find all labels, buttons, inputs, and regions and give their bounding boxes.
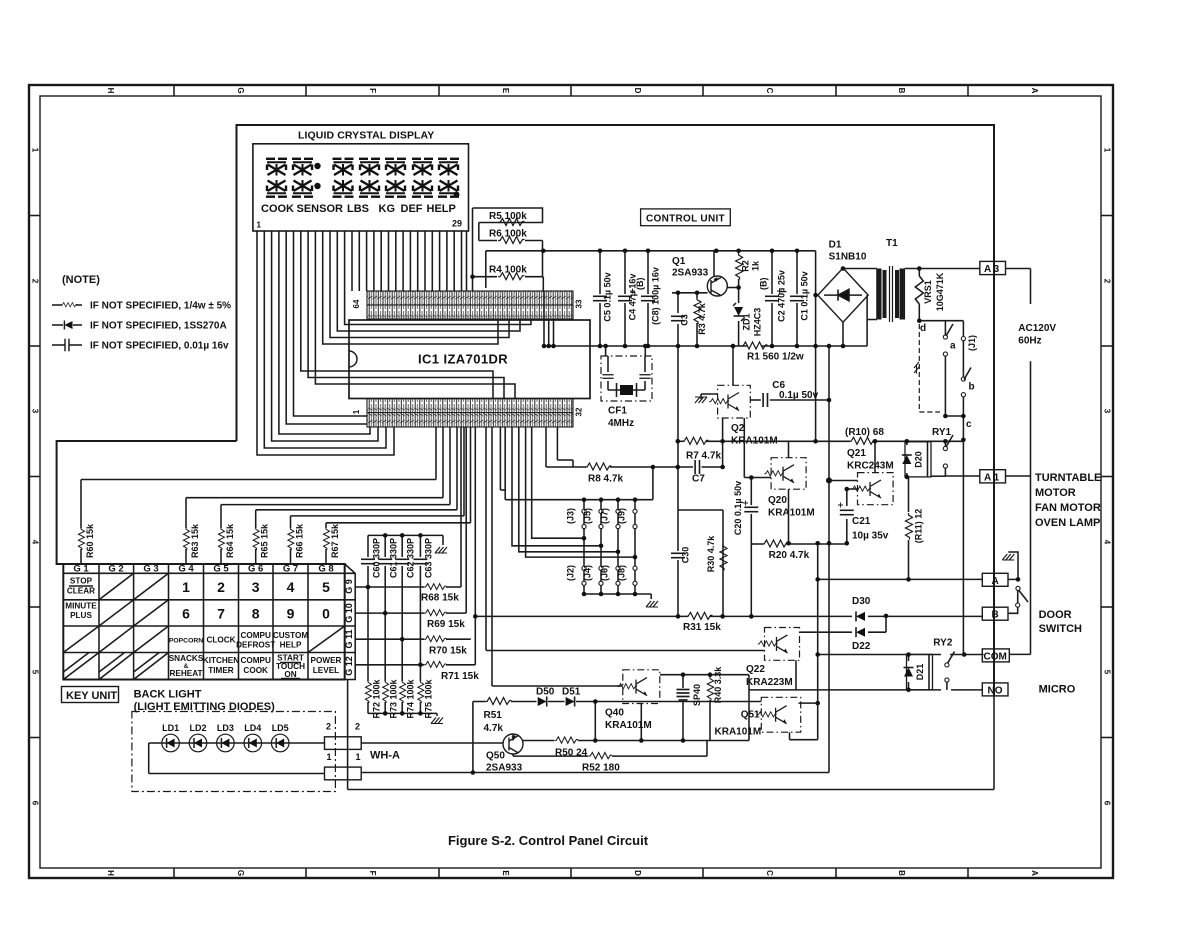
svg-text:1: 1: [356, 752, 361, 762]
svg-text:G: G: [236, 87, 245, 93]
svg-text:C20 0.1µ 50v: C20 0.1µ 50v: [733, 481, 743, 535]
svg-text:G 9: G 9: [344, 579, 354, 594]
svg-text:Q21: Q21: [847, 448, 866, 459]
svg-text:LD4: LD4: [244, 723, 261, 733]
svg-text:Q40: Q40: [605, 708, 624, 719]
svg-text:2: 2: [326, 722, 331, 732]
svg-text:1: 1: [30, 148, 39, 153]
svg-text:1: 1: [182, 579, 190, 595]
svg-text:A: A: [1030, 870, 1039, 876]
svg-text:IF NOT SPECIFIED, 0.01µ 16v: IF NOT SPECIFIED, 0.01µ 16v: [90, 341, 229, 352]
svg-text:LD5: LD5: [272, 723, 289, 733]
svg-text:HZ4C3: HZ4C3: [753, 308, 763, 337]
svg-text:R51: R51: [484, 710, 503, 721]
svg-text:R66 15k: R66 15k: [295, 523, 305, 558]
svg-text:(C8) 100µ 16v: (C8) 100µ 16v: [651, 267, 661, 325]
svg-text:C63 330P: C63 330P: [424, 538, 434, 578]
svg-text:R68 15k: R68 15k: [421, 593, 459, 604]
svg-text:VRS1: VRS1: [923, 280, 933, 304]
svg-text:D: D: [633, 870, 642, 876]
svg-text:ON: ON: [284, 670, 296, 679]
svg-text:S1NB10: S1NB10: [829, 252, 867, 263]
svg-text:B: B: [897, 870, 906, 876]
svg-text:G 2: G 2: [108, 564, 123, 575]
svg-text:T1: T1: [886, 238, 898, 249]
svg-text:R52 180: R52 180: [582, 763, 620, 774]
svg-text:CLEAR: CLEAR: [67, 587, 95, 596]
svg-text:9: 9: [287, 606, 295, 622]
svg-text:KRA223M: KRA223M: [746, 677, 793, 688]
svg-text:2: 2: [30, 279, 39, 284]
svg-text:C5 0.1µ 50v: C5 0.1µ 50v: [603, 272, 613, 321]
svg-text:4: 4: [287, 579, 295, 595]
svg-text:BACK LIGHT: BACK LIGHT: [134, 689, 202, 701]
svg-text:G 7: G 7: [283, 564, 298, 575]
svg-text:G 1: G 1: [73, 564, 89, 575]
svg-text:7: 7: [217, 606, 225, 622]
svg-text:R65 15k: R65 15k: [260, 523, 270, 558]
svg-text:MINUTE: MINUTE: [65, 602, 97, 611]
svg-text:(J7): (J7): [600, 508, 610, 524]
svg-text:10G471K: 10G471K: [935, 272, 945, 311]
svg-text:B: B: [992, 610, 999, 621]
svg-text:R67 15k: R67 15k: [330, 523, 340, 558]
svg-text:OVEN LAMP: OVEN LAMP: [1035, 517, 1100, 529]
svg-text:C2 470µ 25v: C2 470µ 25v: [777, 270, 787, 322]
svg-text:D30: D30: [852, 596, 871, 607]
svg-text:R4 100k: R4 100k: [489, 265, 527, 276]
svg-text:A 3: A 3: [984, 264, 1000, 275]
svg-text:3: 3: [1103, 409, 1112, 414]
svg-text:HELP: HELP: [280, 641, 302, 650]
svg-text:MICRO: MICRO: [1039, 684, 1076, 696]
svg-text:PLUS: PLUS: [70, 611, 92, 620]
svg-text:29: 29: [452, 219, 462, 229]
svg-text:LD3: LD3: [217, 723, 234, 733]
svg-text:R64 15k: R64 15k: [225, 523, 235, 558]
svg-text:COOK: COOK: [261, 203, 294, 215]
svg-text:COMPU: COMPU: [240, 656, 271, 665]
svg-text:Q20: Q20: [768, 495, 787, 506]
svg-text:CF1: CF1: [608, 406, 627, 417]
svg-text:SWITCH: SWITCH: [1039, 623, 1082, 635]
svg-text:4: 4: [30, 540, 39, 545]
svg-text:A: A: [992, 576, 999, 587]
svg-text:2: 2: [1103, 279, 1112, 284]
svg-text:Q51: Q51: [741, 710, 760, 721]
svg-text:R7 4.7k: R7 4.7k: [686, 451, 721, 462]
svg-text:R2: R2: [741, 260, 751, 272]
svg-text:REHEAT: REHEAT: [169, 669, 202, 678]
svg-text:DEFROST: DEFROST: [236, 641, 275, 650]
svg-text:G 6: G 6: [248, 564, 263, 575]
svg-text:6: 6: [182, 606, 190, 622]
svg-text:1: 1: [1103, 148, 1112, 153]
svg-text:CLOCK: CLOCK: [206, 636, 235, 645]
svg-text:(J6): (J6): [600, 565, 610, 581]
svg-text:R72 100k: R72 100k: [372, 678, 382, 718]
svg-text:CONTROL UNIT: CONTROL UNIT: [646, 214, 725, 225]
svg-text:POWER: POWER: [311, 656, 342, 665]
svg-text:4: 4: [1103, 540, 1112, 545]
svg-text:60Hz: 60Hz: [1018, 336, 1041, 347]
svg-text:IC1 IZA701DR: IC1 IZA701DR: [418, 352, 508, 367]
svg-text:(J3): (J3): [566, 508, 576, 524]
svg-text:5: 5: [322, 579, 330, 595]
svg-text:LEVEL: LEVEL: [313, 666, 339, 675]
svg-text:6: 6: [1103, 801, 1112, 806]
svg-text:G 11: G 11: [344, 629, 354, 648]
svg-text:DEF: DEF: [401, 203, 423, 215]
svg-text:HELP: HELP: [427, 203, 456, 215]
svg-text:H: H: [106, 88, 115, 94]
svg-text:2SA933: 2SA933: [486, 763, 523, 774]
svg-text:2SA933: 2SA933: [672, 268, 709, 279]
svg-text:1: 1: [327, 752, 332, 762]
svg-text:33: 33: [575, 299, 584, 308]
svg-text:C3: C3: [680, 314, 690, 326]
svg-text:Q50: Q50: [486, 751, 505, 762]
svg-text:C1 0.1µ 50v: C1 0.1µ 50v: [800, 271, 810, 320]
svg-text:KRC243M: KRC243M: [847, 461, 894, 472]
svg-text:R73 100k: R73 100k: [389, 678, 399, 718]
svg-text:D22: D22: [852, 641, 871, 652]
svg-text:H: H: [106, 870, 115, 876]
svg-text:E: E: [501, 88, 510, 94]
svg-text:NO: NO: [988, 685, 1003, 696]
svg-text:(J2): (J2): [566, 565, 576, 581]
svg-text:A: A: [1030, 88, 1039, 94]
svg-text:CUSTOM: CUSTOM: [273, 631, 309, 640]
svg-text:4MHz: 4MHz: [608, 418, 634, 429]
svg-text:R63 15k: R63 15k: [190, 523, 200, 558]
svg-text:(R10) 68: (R10) 68: [845, 427, 884, 438]
svg-text:RY1: RY1: [932, 427, 952, 438]
svg-text:ZD1: ZD1: [742, 313, 752, 330]
svg-text:R8 4.7k: R8 4.7k: [588, 474, 623, 485]
svg-text:C62 330P: C62 330P: [406, 538, 416, 578]
svg-text:E: E: [501, 870, 510, 876]
svg-text:Q22: Q22: [746, 664, 765, 675]
svg-text:TURNTABLE: TURNTABLE: [1035, 472, 1101, 484]
svg-text:R69 15k: R69 15k: [427, 619, 465, 630]
svg-text:KRA101M: KRA101M: [768, 508, 815, 519]
svg-text:D21: D21: [915, 664, 925, 681]
svg-text:AC120V: AC120V: [1018, 323, 1056, 334]
svg-text:G: G: [236, 870, 245, 876]
svg-text:KEY UNIT: KEY UNIT: [66, 690, 117, 702]
svg-text:TIMER: TIMER: [208, 666, 234, 675]
svg-text:RY2: RY2: [933, 638, 953, 649]
svg-text:KITCHEN: KITCHEN: [203, 656, 239, 665]
svg-text:D20: D20: [914, 451, 924, 468]
svg-text:R40 3.3k: R40 3.3k: [713, 666, 723, 704]
svg-text:KRA101M: KRA101M: [605, 720, 652, 731]
svg-text:COMPU: COMPU: [240, 631, 271, 640]
svg-text:Q2: Q2: [731, 423, 745, 434]
svg-text:R5 100k: R5 100k: [489, 211, 527, 222]
svg-text:4.7k: 4.7k: [484, 723, 504, 734]
svg-text:(J4): (J4): [583, 565, 593, 581]
svg-text:G 3: G 3: [143, 564, 158, 575]
svg-text:F: F: [368, 88, 377, 93]
svg-text:G 12: G 12: [344, 656, 354, 676]
svg-text:IF NOT SPECIFIED, 1/4w ± 5%: IF NOT SPECIFIED, 1/4w ± 5%: [90, 301, 231, 312]
svg-text:LBS: LBS: [347, 203, 369, 215]
svg-text:(J5): (J5): [583, 508, 593, 524]
svg-text:COOK: COOK: [243, 666, 268, 675]
svg-text:32: 32: [575, 407, 584, 416]
svg-text:R20 4.7k: R20 4.7k: [769, 550, 810, 561]
svg-text:C: C: [765, 88, 774, 94]
svg-text:R3 4.7k: R3 4.7k: [697, 302, 707, 335]
svg-text:F: F: [368, 871, 377, 876]
svg-text:LIQUID CRYSTAL DISPLAY: LIQUID CRYSTAL DISPLAY: [298, 130, 434, 142]
svg-text:8: 8: [252, 606, 260, 622]
svg-text:d: d: [920, 323, 926, 334]
svg-text:R75 100k: R75 100k: [424, 678, 434, 718]
svg-text:DOOR: DOOR: [1039, 609, 1072, 621]
svg-text:C: C: [765, 870, 774, 876]
svg-text:SP40: SP40: [692, 684, 702, 706]
svg-text:C60 330P: C60 330P: [372, 538, 382, 578]
svg-text:R70 15k: R70 15k: [429, 646, 467, 657]
svg-text:R31 15k: R31 15k: [683, 622, 721, 633]
svg-text:SNACKS: SNACKS: [169, 654, 204, 663]
svg-text:Figure S-2. Control Panel Circ: Figure S-2. Control Panel Circuit: [448, 833, 649, 848]
svg-text:b: b: [969, 382, 975, 393]
svg-text:G 5: G 5: [213, 564, 229, 575]
svg-text:SENSOR: SENSOR: [297, 203, 344, 215]
svg-text:(J9): (J9): [617, 508, 627, 524]
svg-text:3: 3: [252, 579, 260, 595]
svg-text:IF NOT SPECIFIED, 1SS270A: IF NOT SPECIFIED, 1SS270A: [90, 321, 227, 332]
svg-text:COM: COM: [984, 651, 1007, 662]
svg-text:(J1): (J1): [967, 335, 977, 351]
svg-text:G 4: G 4: [178, 564, 194, 575]
svg-text:(B): (B): [759, 278, 769, 291]
svg-text:(J8): (J8): [617, 565, 627, 581]
svg-text:(R11) 12: (R11) 12: [914, 509, 924, 544]
svg-text:D1: D1: [829, 240, 842, 251]
svg-text:R6 100k: R6 100k: [489, 229, 527, 240]
svg-text:(B): (B): [635, 278, 645, 291]
svg-text:MOTOR: MOTOR: [1035, 487, 1076, 499]
svg-text:5: 5: [1103, 670, 1112, 675]
svg-text:C30: C30: [681, 547, 691, 564]
svg-text:R60 15k: R60 15k: [85, 523, 95, 558]
svg-text:KRA101M: KRA101M: [715, 727, 762, 738]
svg-text:WH-A: WH-A: [370, 750, 400, 762]
svg-text:STOP: STOP: [70, 577, 93, 586]
svg-text:3: 3: [30, 409, 39, 414]
svg-text:D: D: [633, 88, 642, 94]
svg-text:(NOTE): (NOTE): [62, 274, 100, 286]
svg-text:B: B: [897, 88, 906, 94]
svg-text:KG: KG: [379, 203, 396, 215]
svg-text:R74 100k: R74 100k: [406, 678, 416, 718]
svg-text:C61 330P: C61 330P: [389, 538, 399, 578]
svg-text:c: c: [966, 419, 972, 430]
svg-text:1: 1: [257, 221, 262, 230]
svg-text:R30 4.7k: R30 4.7k: [706, 535, 716, 573]
svg-text:2: 2: [217, 579, 225, 595]
svg-text:0: 0: [322, 606, 330, 622]
svg-text:LD1: LD1: [162, 723, 179, 733]
svg-text:6: 6: [30, 801, 39, 806]
svg-text:10µ 35v: 10µ 35v: [852, 531, 889, 542]
svg-text:64: 64: [352, 299, 361, 308]
svg-text:LD2: LD2: [189, 723, 206, 733]
svg-text:D51: D51: [562, 687, 581, 698]
svg-text:POPCORN: POPCORN: [169, 638, 203, 645]
svg-text:1: 1: [352, 409, 361, 414]
svg-text:R71 15k: R71 15k: [441, 671, 479, 682]
svg-text:Q1: Q1: [672, 256, 686, 267]
svg-text:5: 5: [30, 670, 39, 675]
svg-text:C7: C7: [692, 474, 705, 485]
svg-text:1k: 1k: [751, 260, 761, 271]
svg-text:FAN MOTOR: FAN MOTOR: [1035, 502, 1101, 514]
svg-text:2: 2: [355, 722, 360, 732]
svg-text:A 1: A 1: [984, 473, 1000, 484]
svg-text:G 10: G 10: [344, 603, 354, 623]
svg-text:D50: D50: [536, 687, 555, 698]
svg-text:a: a: [950, 341, 956, 352]
svg-text:R1 560 1/2w: R1 560 1/2w: [747, 352, 804, 363]
svg-text:G 8: G 8: [318, 564, 333, 575]
svg-text:R50 24: R50 24: [555, 748, 588, 759]
svg-text:C21: C21: [852, 516, 871, 527]
